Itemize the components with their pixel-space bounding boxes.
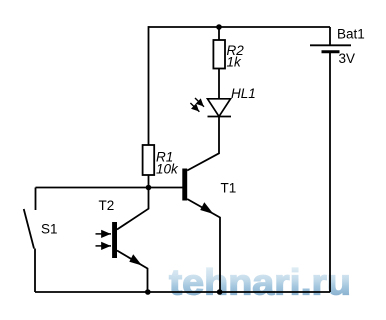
svg-text:10k: 10k [156,162,179,177]
svg-text:HL1: HL1 [231,86,256,101]
svg-text:tehnari.ru: tehnari.ru [169,262,351,303]
svg-text:Bat1: Bat1 [337,27,365,42]
svg-text:T1: T1 [221,181,237,196]
svg-text:S1: S1 [41,222,58,237]
svg-text:3V: 3V [339,51,356,66]
svg-text:1k: 1k [227,55,243,70]
svg-text:T2: T2 [99,198,115,213]
